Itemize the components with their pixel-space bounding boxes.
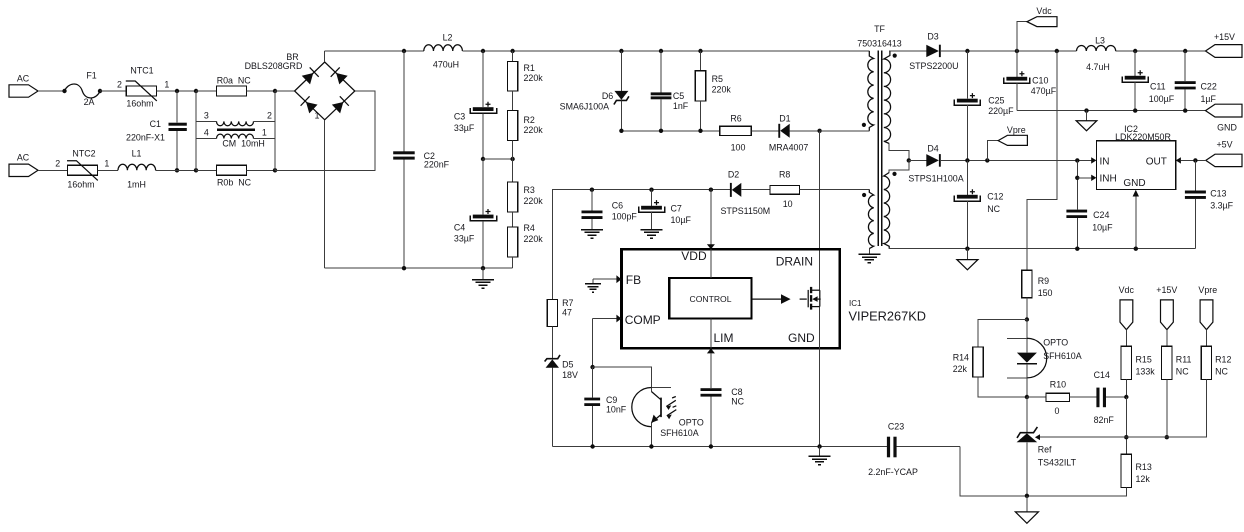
svg-text:NTC1: NTC1	[130, 66, 153, 76]
svg-text:100µF: 100µF	[1149, 94, 1175, 104]
svg-text:18V: 18V	[562, 370, 578, 380]
svg-text:L1: L1	[132, 149, 142, 159]
svg-text:1: 1	[164, 80, 169, 90]
svg-text:2: 2	[267, 110, 272, 120]
inductor L1 1mH	[118, 149, 156, 190]
svg-text:+15V: +15V	[1156, 285, 1177, 295]
svg-text:IN: IN	[1100, 156, 1110, 167]
svg-text:SFH610A: SFH610A	[1043, 351, 1082, 361]
pin LIM wire	[707, 318, 715, 446]
TVS diode D6 SMA6J100A	[560, 51, 629, 131]
diode D2 STPS1150M	[721, 169, 771, 216]
svg-text:TF: TF	[874, 24, 885, 34]
svg-text:INH: INH	[1100, 174, 1117, 185]
capacitor C25 220uF	[954, 51, 1014, 160]
svg-text:SFH610A: SFH610A	[660, 428, 699, 438]
svg-text:1: 1	[315, 111, 320, 121]
svg-text:220k: 220k	[712, 84, 732, 94]
svg-text:D2: D2	[728, 169, 739, 179]
capacitor C7 10uF	[639, 190, 692, 230]
svg-text:100: 100	[731, 143, 746, 153]
svg-text:Vpre: Vpre	[1198, 285, 1217, 295]
svg-text:3: 3	[204, 110, 209, 120]
wire source to ground rail	[819, 307, 821, 447]
node opto cathode	[1025, 395, 1029, 399]
connector AC (line input)	[9, 74, 38, 98]
node C12 top	[965, 158, 969, 162]
pin FB wire + ground	[585, 275, 621, 292]
svg-text:D6: D6	[602, 91, 613, 101]
wire bridge bottom to ground rail	[324, 120, 326, 268]
resistor R12 NC	[1040, 346, 1232, 437]
svg-text:R9: R9	[1038, 276, 1049, 286]
svg-text:+15V: +15V	[1214, 32, 1235, 42]
svg-text:220µF: 220µF	[988, 106, 1014, 116]
node clamp C5 bottom	[659, 129, 663, 133]
svg-text:C22: C22	[1201, 82, 1217, 92]
wire to bridge left	[275, 90, 295, 92]
node R1 top	[510, 49, 514, 53]
svg-text:10: 10	[783, 199, 793, 209]
wire top rail L2 to transformer	[462, 50, 869, 52]
resistor R9 150	[1022, 270, 1053, 319]
connector Vpre (secondary)	[985, 125, 1027, 163]
resistor R2 220k	[507, 111, 543, 159]
resistor R0b NC	[196, 165, 275, 187]
node R15/C14	[1124, 395, 1128, 399]
node clamp R5 bottom	[698, 129, 702, 133]
svg-text:NC: NC	[1215, 366, 1228, 376]
svg-text:C23: C23	[888, 422, 904, 432]
connector +15V	[1206, 32, 1243, 57]
resistor R7 47	[547, 298, 573, 358]
svg-text:C7: C7	[671, 204, 682, 214]
wire R15 to ref line	[1125, 397, 1127, 454]
svg-text:R8: R8	[779, 169, 790, 179]
wire EMI left vertical	[195, 91, 197, 170]
node opto anode	[1025, 317, 1029, 321]
transformer secondary winding lower	[884, 172, 897, 249]
svg-text:2: 2	[117, 80, 122, 90]
transformer primary winding	[862, 51, 874, 131]
diode D3 STPS2200U	[909, 32, 1076, 71]
svg-text:GND: GND	[1217, 122, 1237, 132]
wire AC to F1	[38, 90, 65, 92]
svg-text:C11: C11	[1150, 82, 1166, 92]
svg-text:1mH: 1mH	[127, 180, 146, 190]
svg-text:150: 150	[1038, 288, 1053, 298]
capacitor C9 10nF	[584, 367, 627, 446]
node EMI left top	[194, 89, 198, 93]
op-amp/controller IC1 VIPER267KD box	[621, 249, 926, 348]
wire L1 to node	[156, 169, 196, 171]
svg-text:CM 10mH: CM 10mH	[222, 139, 264, 149]
connector Vdc (top)	[1017, 6, 1057, 51]
svg-text:R5: R5	[712, 74, 723, 84]
node TS432 anode	[1025, 494, 1029, 498]
svg-text:LDK220M50R: LDK220M50R	[1115, 132, 1171, 142]
ground transformer auxiliary	[858, 254, 880, 263]
wire center tap to lower winding	[889, 160, 909, 172]
svg-text:C10: C10	[1032, 76, 1048, 86]
fuse F1 2A	[62, 71, 102, 107]
node C5 top	[659, 49, 663, 53]
svg-text:C14: C14	[1094, 370, 1110, 380]
svg-text:FB: FB	[626, 273, 641, 287]
wire primary bottom to transformer	[820, 130, 870, 132]
common mode choke CM winding 4-1	[196, 128, 275, 149]
svg-text:NTC2: NTC2	[72, 149, 95, 159]
node C11 top	[1133, 49, 1137, 53]
connector AC (neutral input)	[9, 153, 38, 177]
capacitor C22 1uF	[1175, 51, 1217, 111]
resistor R1 220k	[507, 51, 543, 111]
wire secondary return rail	[889, 248, 1195, 250]
node drain/primary	[817, 129, 821, 133]
wire secondary GND rail	[1017, 110, 1206, 112]
svg-text:VDD: VDD	[681, 249, 707, 263]
svg-text:IC1: IC1	[849, 299, 862, 308]
svg-text:R10: R10	[1050, 380, 1066, 390]
svg-text:NC: NC	[1176, 366, 1189, 376]
node C25 top	[965, 49, 969, 53]
node C7 top	[649, 188, 653, 192]
svg-text:750316413: 750316413	[857, 39, 901, 49]
resistor R11 NC	[1162, 346, 1192, 437]
svg-text:TS432ILT: TS432ILT	[1038, 457, 1077, 467]
svg-text:OPTO: OPTO	[1043, 338, 1068, 348]
pin IN arrow	[1091, 157, 1096, 163]
resistor R0a NC	[196, 76, 275, 97]
regulator IC2 LDK220M50R	[1096, 124, 1175, 190]
capacitor C6 100pF	[582, 190, 638, 230]
svg-text:R15: R15	[1136, 355, 1152, 365]
wire NTC2 to L1	[98, 169, 119, 171]
svg-text:C5: C5	[673, 91, 684, 101]
wire bottom AC rail to bridge right	[275, 91, 375, 170]
svg-text:1: 1	[104, 159, 109, 169]
capacitor C11 100uF	[1122, 51, 1175, 111]
svg-text:100pF: 100pF	[612, 211, 638, 221]
svg-text:C3: C3	[454, 112, 465, 122]
svg-text:22k: 22k	[953, 364, 968, 374]
wire EMI right vertical	[274, 91, 276, 170]
node C24 bottom	[1075, 247, 1079, 251]
svg-text:470uH: 470uH	[433, 59, 459, 69]
svg-text:STPS1H100A: STPS1H100A	[908, 174, 963, 184]
node COMP net	[590, 365, 594, 369]
svg-text:220k: 220k	[524, 234, 544, 244]
svg-text:R2: R2	[524, 115, 535, 125]
svg-text:1: 1	[262, 128, 267, 138]
bridge rectifier BR DBLS208GRD	[245, 52, 355, 121]
svg-text:R11: R11	[1176, 355, 1192, 365]
common mode choke CM 10mH winding 3-2	[196, 110, 275, 125]
svg-text:220k: 220k	[524, 73, 544, 83]
wire COMP to opto collector	[593, 367, 652, 391]
svg-text:R3: R3	[524, 185, 535, 195]
svg-text:SMA6J100A: SMA6J100A	[560, 102, 609, 112]
ground C7	[641, 230, 663, 239]
svg-text:STPS2200U: STPS2200U	[909, 61, 958, 71]
resistor R6 100	[720, 114, 779, 153]
node IC2 input	[1075, 158, 1079, 162]
svg-text:4.7uH: 4.7uH	[1086, 62, 1110, 72]
resistor R15 133k	[1121, 346, 1155, 397]
node ref line R11	[1165, 435, 1169, 439]
svg-text:L2: L2	[443, 32, 453, 42]
wire IN/INH vertical	[1076, 160, 1078, 209]
node VDD pin top	[709, 188, 713, 192]
svg-text:Vdc: Vdc	[1036, 6, 1052, 16]
svg-text:AC: AC	[17, 74, 30, 84]
capacitor C3 33uF	[454, 51, 497, 159]
svg-text:DRAIN: DRAIN	[776, 255, 813, 269]
node IC2 gnd bottom	[1134, 247, 1138, 251]
ground bulk rail earth	[472, 268, 494, 288]
svg-text:R0b NC: R0b NC	[217, 177, 252, 187]
wire C23 to secondary return	[960, 447, 1027, 496]
ground C6	[581, 230, 603, 239]
node C6 top	[590, 188, 594, 192]
connector +15V (feedback divider)	[1156, 285, 1177, 347]
connector Vdc (feedback divider)	[1119, 285, 1135, 347]
svg-text:D3: D3	[927, 32, 938, 42]
ground secondary (triangle)	[1076, 111, 1097, 131]
opto LED OPTO SFH610A	[1007, 320, 1082, 398]
svg-text:LIM: LIM	[714, 331, 734, 345]
svg-text:L3: L3	[1095, 36, 1105, 46]
node C2 top	[402, 49, 406, 53]
capacitor C8 NC	[701, 387, 745, 406]
wire primary ground rail	[552, 446, 887, 448]
svg-text:2: 2	[55, 159, 60, 169]
node clamp D6 bottom	[619, 129, 623, 133]
wire F1 to NTC1	[100, 90, 126, 92]
svg-text:COMP: COMP	[625, 313, 661, 327]
svg-text:DBLS208GRD: DBLS208GRD	[245, 61, 303, 71]
node D6 top	[619, 49, 623, 53]
svg-text:16ohm: 16ohm	[67, 180, 94, 190]
CONTROL block	[669, 278, 751, 318]
diode D4 STPS1H100A	[908, 143, 1091, 183]
svg-text:CONTROL: CONTROL	[689, 294, 731, 304]
svg-text:NC: NC	[987, 204, 1000, 214]
svg-text:R0a NC: R0a NC	[217, 76, 252, 86]
resistor R5 220k	[695, 51, 731, 131]
svg-text:12k: 12k	[1136, 474, 1151, 484]
ground secondary return (triangle)	[957, 249, 978, 270]
wire bridge top to rail	[324, 51, 326, 62]
svg-text:MRA4007: MRA4007	[769, 143, 809, 153]
diode D1 MRA4007	[769, 114, 820, 153]
node secondary gnd triangle	[1084, 108, 1088, 112]
svg-text:10µF: 10µF	[671, 215, 692, 225]
resistor R4 220k	[507, 223, 543, 268]
node Vdc/R9 feed	[1055, 49, 1059, 53]
svg-text:D4: D4	[927, 143, 938, 153]
ground feedback (triangle)	[1015, 496, 1038, 524]
svg-text:GND: GND	[1123, 178, 1145, 189]
capacitor C2 220nF	[393, 51, 449, 268]
svg-text:47: 47	[562, 307, 572, 317]
wire mid link C to R chain	[483, 158, 513, 160]
transformer secondary winding upper	[884, 51, 927, 144]
node C8 bottom	[709, 444, 713, 448]
wire AC2 to NTC2	[38, 169, 68, 171]
gate drive arrow	[752, 294, 791, 304]
capacitor C1 220nF-X1	[126, 91, 187, 170]
node C3/C4 mid	[481, 157, 485, 161]
transformer auxiliary winding	[862, 190, 874, 255]
svg-text:R4: R4	[524, 223, 535, 233]
ground IC1 source	[809, 447, 831, 465]
capacitor C24 10uF	[1066, 210, 1113, 249]
ref arrow into TS432	[1035, 434, 1040, 440]
node R5 top	[698, 49, 702, 53]
capacitor C23 2.2nF-YCAP	[868, 422, 960, 477]
node C2 bottom	[402, 266, 406, 270]
connector +5V + wire to OUT	[1176, 140, 1242, 167]
shunt reference Ref TS432ILT	[1017, 397, 1077, 496]
svg-text:10nF: 10nF	[606, 404, 627, 414]
svg-text:220nF: 220nF	[424, 160, 450, 170]
resistor R8 10	[770, 169, 869, 209]
node C3 top	[481, 49, 485, 53]
svg-text:4: 4	[204, 128, 209, 138]
node C22 top	[1183, 49, 1187, 53]
CM choke core bar	[217, 129, 255, 132]
svg-text:220k: 220k	[524, 196, 544, 206]
resistor R14 22k	[953, 320, 1027, 398]
svg-text:1nF: 1nF	[673, 101, 689, 111]
capacitor C4 33uF	[454, 159, 497, 268]
pin GND arrow + wire	[1133, 190, 1139, 249]
wire secondary center tap	[889, 144, 909, 161]
svg-text:133k: 133k	[1136, 366, 1156, 376]
wire drain vertical	[819, 131, 821, 290]
svg-text:220nF-X1: 220nF-X1	[126, 133, 165, 143]
node C11 bottom	[1133, 108, 1137, 112]
svg-text:C6: C6	[612, 201, 623, 211]
svg-text:C25: C25	[988, 95, 1004, 105]
inductor L2 470uH	[424, 32, 463, 69]
svg-text:R12: R12	[1215, 355, 1231, 365]
svg-text:33µF: 33µF	[454, 234, 475, 244]
node EMI right bottom	[273, 168, 277, 172]
svg-text:R1: R1	[524, 63, 535, 73]
svg-text:3.3µF: 3.3µF	[1210, 201, 1233, 211]
svg-text:OUT: OUT	[1146, 156, 1167, 167]
svg-text:Ref: Ref	[1038, 444, 1052, 454]
opto transistor OPTO SFH610A	[632, 388, 704, 447]
svg-text:C1: C1	[150, 119, 161, 129]
capacitor C12 NC	[954, 160, 1003, 248]
svg-text:AC: AC	[17, 153, 30, 163]
svg-text:82nF: 82nF	[1094, 415, 1115, 425]
svg-text:C24: C24	[1093, 210, 1109, 220]
thermistor NTC1 16ohm	[117, 66, 169, 109]
svg-text:2A: 2A	[84, 97, 95, 107]
node center tap	[907, 158, 911, 162]
svg-text:16ohm: 16ohm	[126, 98, 153, 108]
node C22 bottom	[1183, 108, 1187, 112]
thermistor NTC2 16ohm	[55, 149, 109, 190]
capacitor C13 3.3uF	[1185, 160, 1234, 248]
wire NTC1 to node	[157, 90, 196, 92]
svg-text:F1: F1	[86, 71, 96, 81]
node INH	[1075, 176, 1079, 180]
svg-text:220k: 220k	[524, 125, 544, 135]
pin INH arrow + wire	[1077, 175, 1096, 181]
svg-text:2.2nF-YCAP: 2.2nF-YCAP	[868, 467, 918, 477]
connector Vpre (feedback divider)	[1198, 285, 1217, 347]
wire Vdc feed to R9	[1027, 51, 1057, 270]
node C13 top	[1193, 158, 1197, 162]
wire clamp bottom	[621, 130, 719, 132]
resistor R3 220k	[507, 159, 543, 227]
node IC1 source ground	[817, 444, 821, 448]
resistor R10 0	[1027, 380, 1097, 417]
connector GND	[1206, 104, 1243, 132]
node EMI right top	[273, 89, 277, 93]
svg-text:+5V: +5V	[1216, 140, 1232, 150]
svg-text:D5: D5	[562, 360, 573, 370]
wire bulk ground rail	[325, 267, 513, 269]
svg-text:Vdc: Vdc	[1119, 285, 1135, 295]
transistor Q MOSFET inside IC1	[800, 287, 821, 310]
svg-text:D1: D1	[779, 114, 790, 124]
node R2/R3 mid	[510, 157, 514, 161]
svg-text:1µF: 1µF	[1201, 94, 1217, 104]
svg-text:NC: NC	[731, 396, 744, 406]
node C10 top	[1015, 49, 1019, 53]
svg-text:C12: C12	[987, 192, 1003, 202]
node C9 bottom	[590, 444, 594, 448]
resistor R13 12k	[1027, 454, 1152, 496]
inductor L3 4.7uH	[1077, 36, 1206, 73]
svg-text:R6: R6	[730, 114, 741, 124]
capacitor C14 82nF	[1094, 370, 1127, 425]
transformer core	[878, 51, 881, 247]
capacitor C5 1nF	[651, 51, 689, 131]
svg-text:VIPER267KD: VIPER267KD	[849, 308, 927, 323]
pin COMP wire	[593, 315, 622, 368]
svg-text:C4: C4	[454, 222, 465, 232]
wire top rail to L2	[325, 50, 424, 52]
svg-text:R14: R14	[953, 353, 969, 363]
node C25 bottom	[965, 247, 969, 251]
svg-text:GND: GND	[788, 331, 815, 345]
svg-text:Vpre: Vpre	[1007, 125, 1026, 135]
wire VDD line	[552, 190, 730, 300]
capacitor C10 470uF	[1004, 51, 1057, 111]
node C1 bottom	[175, 168, 179, 172]
svg-text:10µF: 10µF	[1092, 222, 1113, 232]
svg-text:STPS1150M: STPS1150M	[721, 206, 771, 216]
zener diode D5 18V	[545, 355, 578, 447]
svg-text:R13: R13	[1136, 462, 1152, 472]
node ref line R15	[1124, 435, 1128, 439]
svg-text:0: 0	[1055, 406, 1060, 416]
svg-text:OPTO: OPTO	[679, 418, 704, 428]
node bulk ground	[481, 266, 485, 270]
node C1 top	[175, 89, 179, 93]
svg-text:33µF: 33µF	[454, 123, 475, 133]
transformer TF 750316413 labels	[857, 24, 901, 49]
node EMI left bottom	[194, 168, 198, 172]
pin VDD arrow + wire	[707, 190, 715, 278]
